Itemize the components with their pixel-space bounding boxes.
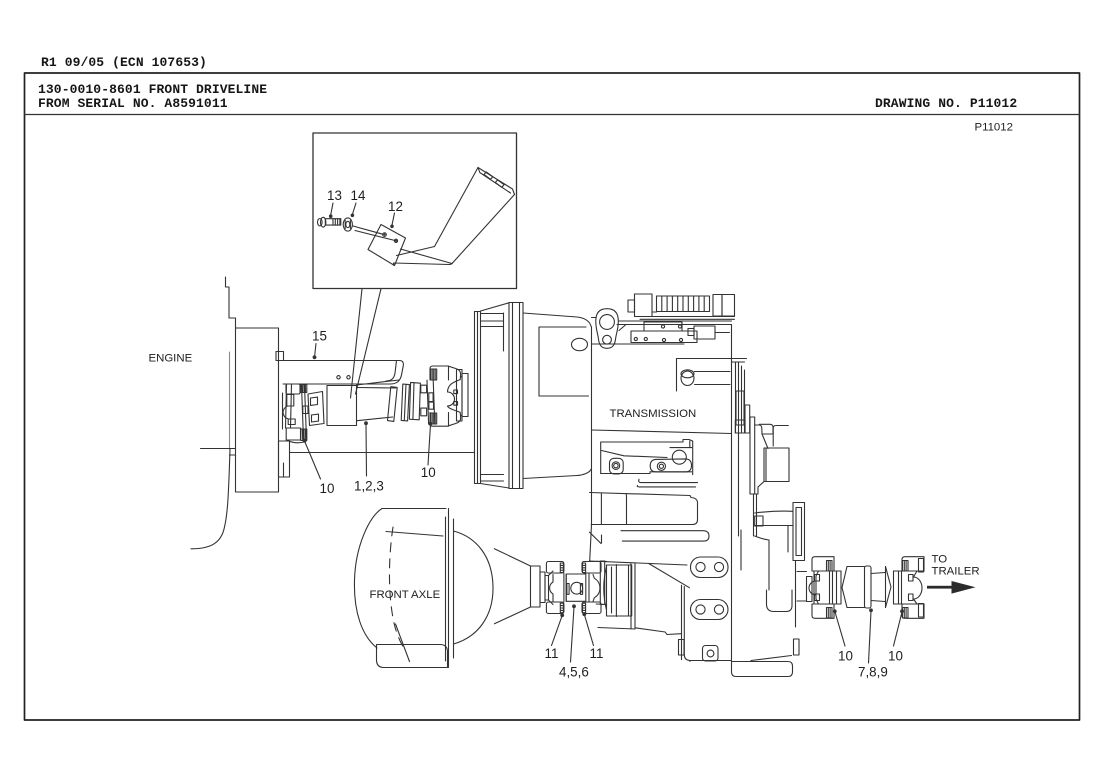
bracket 12: bottom flat bbox=[394, 249, 453, 266]
bracket 12: flange tab 2 bbox=[495, 180, 504, 187]
axle yoke bbox=[546, 562, 564, 614]
rear lower housing bbox=[767, 561, 800, 656]
PTO boss bbox=[681, 370, 730, 386]
bracket 12: angled arm face bbox=[435, 168, 515, 264]
inset leader line to guard plate (right) bbox=[356, 289, 382, 394]
border frame bbox=[25, 73, 1080, 720]
drop box face bbox=[590, 561, 691, 661]
guard mount block bbox=[276, 352, 284, 361]
rear output stub bbox=[797, 572, 812, 602]
svg-text:10: 10 bbox=[320, 481, 335, 496]
svg-text:ENGINE: ENGINE bbox=[149, 353, 193, 365]
leader 7,8,9 bbox=[869, 611, 872, 663]
bolt projection line lower bbox=[355, 231, 395, 241]
ring 1 bbox=[388, 387, 398, 422]
detail inset box bbox=[313, 133, 517, 289]
svg-text:10: 10 bbox=[888, 649, 903, 664]
case split line bbox=[592, 430, 732, 434]
svg-text:11: 11 bbox=[590, 646, 604, 661]
valve body plate bbox=[644, 322, 682, 331]
lower mount block bbox=[279, 441, 290, 477]
label 14 bbox=[351, 188, 366, 203]
svg-text:14: 14 bbox=[351, 188, 366, 203]
case bottom edge bbox=[690, 661, 732, 662]
ring 2 bbox=[401, 384, 409, 421]
label 7,8,9 bbox=[858, 665, 888, 680]
rear U-joint (right) bbox=[894, 557, 925, 619]
U-joint at flywheel (left) bbox=[283, 384, 325, 443]
leader 11 (right) bbox=[585, 615, 594, 646]
bracket 12: top flange fold bbox=[478, 168, 515, 195]
transmission input flange bbox=[457, 370, 463, 422]
speedometer bracket bbox=[755, 503, 805, 591]
axle dome bbox=[454, 531, 494, 644]
big slip collar bbox=[409, 382, 420, 419]
engine block lower tick bbox=[230, 454, 236, 456]
case right edge bbox=[731, 325, 733, 662]
guard 15 bbox=[279, 361, 404, 385]
engine block hidden edge bbox=[229, 352, 231, 449]
label 11 (right) bbox=[590, 646, 604, 661]
label 11 (left) bbox=[545, 646, 559, 661]
main case left edge bbox=[590, 327, 592, 561]
retarder stepped housing bbox=[735, 405, 789, 536]
front axle housing bowl bbox=[354, 509, 453, 668]
label 4,5,6 bbox=[559, 665, 589, 680]
bolt projection line upper bbox=[353, 226, 383, 234]
svg-text:10: 10 bbox=[421, 465, 436, 480]
line below valve body bbox=[592, 343, 685, 345]
leader 10 (left) bbox=[305, 441, 321, 479]
valve body bbox=[619, 325, 697, 343]
svg-text:7,8,9: 7,8,9 bbox=[858, 665, 888, 680]
leader 13 bbox=[331, 203, 333, 215]
inset leader line to guard plate (left) bbox=[351, 289, 363, 398]
svg-text:11: 11 bbox=[545, 646, 559, 661]
svg-text:FROM SERIAL NO. A8591011: FROM SERIAL NO. A8591011 bbox=[38, 96, 228, 111]
flywheel housing bbox=[236, 328, 279, 492]
svg-text:TRANSMISSION: TRANSMISSION bbox=[610, 408, 697, 420]
mounting pad lower bbox=[691, 600, 729, 620]
svg-text:P11012: P11012 bbox=[975, 122, 1013, 134]
right side plate strips bbox=[732, 362, 745, 570]
label 10 (rear right) bbox=[888, 649, 903, 664]
case top lines bbox=[592, 318, 732, 325]
title block: revision text bbox=[41, 55, 207, 70]
bell housing front ring bbox=[475, 303, 510, 488]
guard plate hole lower bbox=[394, 239, 397, 242]
leader 10 (right) bbox=[428, 425, 431, 466]
leader 11 (left) bbox=[552, 616, 563, 646]
U-joint at transmission (right) bbox=[430, 366, 461, 426]
svg-text:DRAWING NO. P11012: DRAWING NO. P11012 bbox=[875, 96, 1017, 111]
title block separator line bbox=[25, 114, 1080, 116]
leader 10 (rear right) bbox=[894, 612, 903, 646]
frame rail line bbox=[290, 452, 475, 454]
oil cooler assembly bbox=[628, 294, 735, 319]
guard plate hole upper bbox=[383, 233, 387, 237]
input yoke to flange lines bbox=[460, 377, 463, 416]
label 1,2,3 bbox=[354, 479, 384, 494]
leader 12 bbox=[392, 213, 395, 225]
cross trunnion strips bbox=[427, 380, 435, 424]
label 10 (left) bbox=[320, 481, 335, 496]
mounting pad upper bbox=[691, 557, 729, 578]
bell housing flange ring bbox=[509, 303, 523, 489]
driveshaft tube bbox=[357, 388, 396, 421]
ENGINE label bbox=[149, 353, 193, 365]
title block: drawing title text bbox=[38, 82, 1017, 134]
slip yoke lugs bbox=[421, 385, 427, 416]
trailer arrow bbox=[927, 581, 976, 594]
converter housing drum bbox=[523, 313, 591, 479]
leader 10 (rear left) bbox=[835, 612, 845, 646]
double cardan center bbox=[564, 573, 586, 602]
pinion cone bbox=[494, 549, 530, 624]
TO TRAILER label bbox=[932, 554, 980, 578]
svg-text:15: 15 bbox=[312, 329, 327, 344]
shaft rear taper line bbox=[357, 380, 399, 385]
crankshaft centerline bbox=[201, 448, 236, 450]
shift linkage housing bbox=[601, 440, 698, 487]
driveshaft guard plate bbox=[327, 386, 357, 426]
label 12 bbox=[388, 199, 403, 214]
label 13 bbox=[327, 188, 342, 203]
breather oval bbox=[572, 338, 588, 350]
leader 15 bbox=[315, 344, 316, 356]
solenoid bbox=[688, 326, 730, 339]
lifting eye bbox=[596, 309, 619, 349]
svg-text:4,5,6: 4,5,6 bbox=[559, 665, 589, 680]
engine oil pan curve bbox=[191, 449, 230, 549]
leader 14 bbox=[353, 203, 357, 214]
bracket 12: inner crease bbox=[397, 247, 435, 256]
label 10 (rear left) bbox=[838, 649, 853, 664]
label 15 bbox=[312, 329, 327, 344]
bracket 12: mounting plate bbox=[368, 225, 406, 266]
label 10 (right) bbox=[421, 465, 436, 480]
PTO strip bbox=[736, 391, 744, 425]
TRANSMISSION label bbox=[610, 408, 697, 420]
pinion cylinders bbox=[531, 566, 549, 607]
PTO top edge bbox=[677, 359, 747, 392]
leader 1,2,3 bbox=[365, 424, 368, 476]
double cardan right yoke bbox=[582, 561, 607, 614]
svg-text:130-0010-8601 FRONT DRIVELINE: 130-0010-8601 FRONT DRIVELINE bbox=[38, 82, 267, 97]
bolt 13 bbox=[318, 217, 341, 227]
svg-text:13: 13 bbox=[327, 188, 342, 203]
svg-text:TRAILER: TRAILER bbox=[932, 566, 980, 578]
svg-text:1,2,3: 1,2,3 bbox=[354, 479, 384, 494]
svg-text:TO: TO bbox=[932, 554, 948, 566]
small foot pad bbox=[703, 646, 719, 662]
svg-text:10: 10 bbox=[838, 649, 853, 664]
front output housing bbox=[604, 565, 632, 617]
leader 4,5,6 bbox=[571, 607, 575, 662]
rear U-joint (left) bbox=[809, 557, 841, 619]
bracket 12: flange tab 1 bbox=[484, 172, 493, 179]
svg-text:FRONT AXLE: FRONT AXLE bbox=[370, 589, 441, 601]
mid case band bbox=[590, 493, 710, 544]
bottom pan bbox=[732, 656, 793, 677]
engine rear face outline bbox=[226, 277, 236, 328]
washer 14 bbox=[343, 218, 352, 231]
svg-text:12: 12 bbox=[388, 199, 403, 214]
svg-text:R1 09/05 (ECN 107653): R1 09/05 (ECN 107653) bbox=[41, 55, 207, 70]
rear shaft tube bbox=[842, 566, 891, 608]
FRONT AXLE label bbox=[370, 589, 441, 601]
